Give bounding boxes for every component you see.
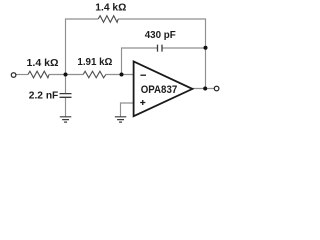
junction C2 to feedback vertical dot	[204, 46, 208, 50]
svg-text:2.2 nF: 2.2 nF	[29, 91, 59, 102]
wire node A down to C1	[65, 75, 67, 94]
op-amp U1 noninverting input plus sign	[140, 100, 145, 105]
wire R2 to op-amp inverting input	[106, 74, 134, 76]
ground symbol below C1	[60, 117, 72, 122]
junction output node dot	[203, 87, 207, 91]
wire capacitor C2 to right vertical	[162, 47, 205, 49]
input terminal	[11, 73, 16, 78]
svg-text:1.91 kΩ: 1.91 kΩ	[77, 57, 112, 68]
svg-text:1.4 kΩ: 1.4 kΩ	[27, 58, 59, 69]
wire R1 to node A	[49, 74, 83, 76]
wire capacitor C2 branch up	[122, 48, 158, 75]
resistor R1 1.4 kOhm input zigzag	[28, 71, 49, 78]
op-amp U1 triangle	[134, 61, 193, 116]
ground symbol below noninverting input	[115, 117, 127, 122]
resistor R2 1.91 kOhm zigzag	[83, 71, 106, 78]
capacitor C1 2.2 nF plates	[60, 94, 72, 98]
wire op-amp output	[192, 88, 214, 90]
op-amp U1 inverting input minus sign	[140, 74, 146, 76]
wire feedback top right	[118, 19, 205, 89]
wire feedback left vertical	[66, 19, 99, 75]
svg-text:OPA837: OPA837	[141, 84, 178, 96]
resistor R3 1.4 kOhm feedback zigzag	[98, 16, 118, 23]
wire op-amp noninverting input to ground	[121, 103, 135, 117]
junction inverting input node dot	[120, 73, 124, 77]
wire input to R1	[16, 74, 28, 76]
svg-text:1.4 kΩ: 1.4 kΩ	[95, 3, 126, 14]
output terminal	[214, 86, 219, 91]
wire C1 to ground	[65, 97, 67, 116]
capacitor C2 430 pF plates	[158, 45, 163, 52]
svg-text:430 pF: 430 pF	[145, 30, 176, 41]
junction node A dot	[64, 73, 68, 77]
